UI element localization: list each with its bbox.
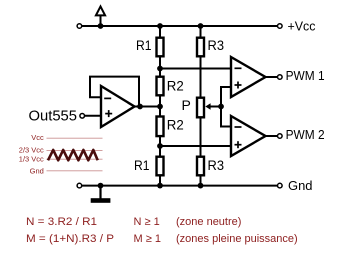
svg-text:1/3 Vcc: 1/3 Vcc — [19, 154, 44, 163]
wire left divider chain — [159, 26, 161, 186]
terminal left end of +Vcc rail — [77, 24, 82, 29]
wire Out555 to U1 non-inverting input — [84, 115, 101, 117]
svg-text:R2: R2 — [167, 78, 184, 94]
svg-text:(zones pleine puissance): (zones pleine puissance) — [176, 233, 298, 245]
wire right divider chain — [200, 26, 202, 186]
op-amp U2 comparator PWM 1 — [231, 57, 266, 97]
potentiometer P — [197, 98, 204, 118]
svg-text:M ≥ 1: M ≥ 1 — [134, 233, 161, 245]
wire U3 output — [266, 135, 278, 137]
junction wiper to bracket — [218, 104, 224, 110]
U3 non-inverting input mark — [235, 141, 242, 148]
wire lower threshold to op-amp U3 non-inverting input — [160, 145, 231, 147]
svg-text:R2: R2 — [167, 116, 184, 132]
resistor R1 top — [157, 38, 164, 57]
U1 inverting input mark — [104, 97, 111, 99]
waveform level line Gnd — [47, 170, 103, 172]
junction divider midpoint — [157, 104, 163, 110]
waveform level line 1/3 Vcc — [47, 158, 103, 160]
terminal left end of Gnd rail — [77, 183, 82, 188]
svg-text:+Vcc: +Vcc — [288, 20, 316, 34]
resistor R2 bottom — [157, 117, 164, 137]
svg-text:R3: R3 — [208, 157, 225, 173]
terminal Gnd — [278, 183, 283, 188]
junction upper threshold node — [157, 66, 163, 72]
U3 inverting input mark — [235, 126, 242, 128]
svg-text:N ≥ 1: N ≥ 1 — [134, 216, 160, 228]
junction U1 output — [137, 104, 143, 110]
op-amp U3 comparator PWM 2 — [231, 116, 266, 156]
wire wiper bracket to comparator inputs — [221, 87, 231, 127]
junction arrow to +Vcc rail — [98, 23, 104, 29]
junction top rail left chain — [157, 23, 163, 29]
triangle waveform trace — [48, 150, 98, 160]
svg-text:Out555: Out555 — [29, 108, 78, 125]
waveform level line 2/3 Vcc — [47, 149, 103, 151]
resistor R3 bottom — [197, 157, 204, 176]
wire +Vcc rail — [82, 25, 278, 27]
junction Gnd rail left chain — [157, 183, 163, 189]
junction Gnd rail right chain — [198, 183, 204, 189]
terminal PWM 1 — [278, 75, 283, 80]
svg-text:PWM 1: PWM 1 — [286, 68, 325, 83]
wire upper threshold to op-amp U2 inverting input — [160, 68, 231, 70]
wire U2 output — [266, 76, 278, 78]
U2 inverting input mark — [235, 67, 242, 69]
svg-text:Gnd: Gnd — [288, 179, 313, 193]
svg-text:R3: R3 — [208, 37, 225, 53]
svg-text:P: P — [181, 97, 190, 113]
wire potentiometer wiper — [205, 103, 221, 110]
resistor R2 top — [157, 77, 164, 96]
U1 non-inverting input mark — [105, 110, 112, 117]
svg-text:N = 3.R2 / R1: N = 3.R2 / R1 — [26, 216, 97, 228]
svg-text:(zone neutre): (zone neutre) — [176, 216, 241, 228]
waveform level line Vcc — [47, 137, 103, 139]
wire U1 feedback loop — [90, 77, 139, 107]
svg-text:Gnd: Gnd — [30, 166, 44, 175]
svg-text:R1: R1 — [136, 37, 152, 53]
svg-text:Vcc: Vcc — [31, 133, 44, 142]
terminal +Vcc — [278, 24, 283, 29]
svg-text:PWM 2: PWM 2 — [286, 127, 325, 142]
wire Gnd rail — [82, 185, 278, 187]
resistor R3 top — [197, 38, 204, 57]
resistor R1 bottom — [157, 157, 164, 176]
op-amp U1 voltage follower — [101, 86, 135, 127]
wire follower output to divider midpoint — [134, 106, 160, 108]
+Vcc supply arrow symbol — [96, 6, 105, 26]
ground symbol — [91, 186, 111, 203]
U2 non-inverting input mark — [235, 82, 242, 89]
terminal Out555 — [80, 114, 85, 119]
svg-text:R1: R1 — [134, 157, 150, 173]
svg-text:M = (1+N).R3 / P: M = (1+N).R3 / P — [26, 233, 114, 245]
terminal PWM 2 — [278, 134, 283, 139]
junction ground to Gnd rail — [98, 183, 104, 189]
junction lower threshold node — [157, 143, 163, 149]
junction top rail right chain — [198, 23, 204, 29]
svg-text:2/3 Vcc: 2/3 Vcc — [19, 146, 44, 155]
